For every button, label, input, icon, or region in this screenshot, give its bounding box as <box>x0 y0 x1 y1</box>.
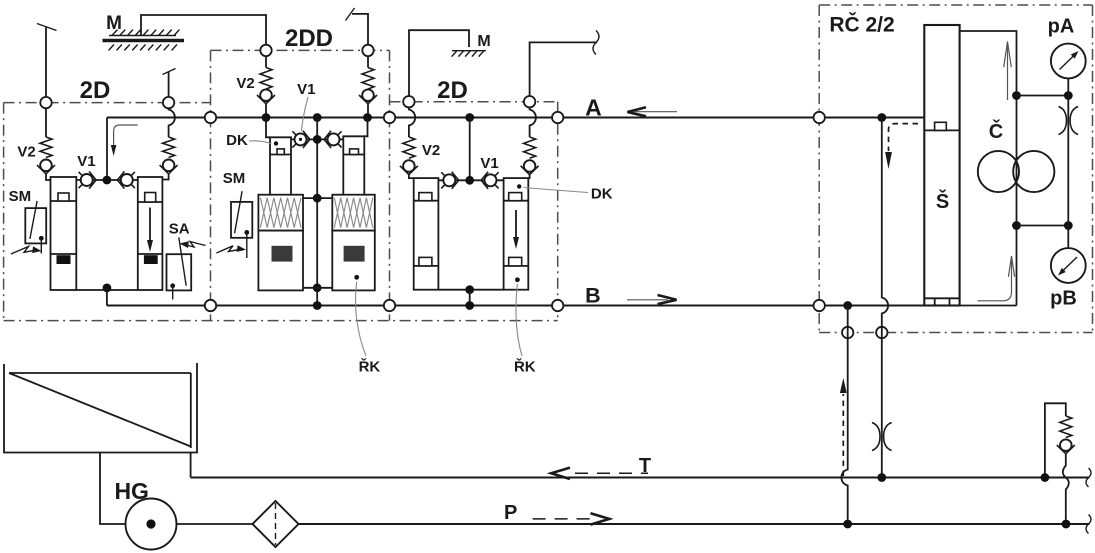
port circle left 2D top-right <box>163 97 174 108</box>
node T at bypass <box>1041 473 1050 482</box>
svg-text:ŘK: ŘK <box>359 358 381 376</box>
node B feed right 2D <box>465 301 474 310</box>
svg-text:V1: V1 <box>77 153 95 170</box>
ground symbol M1 <box>109 35 176 37</box>
node V1 left 2D <box>103 176 112 185</box>
node pump top <box>1012 91 1021 100</box>
check valve V1 left 2DD with pilot dot <box>295 133 307 145</box>
svg-text:Š: Š <box>936 189 949 213</box>
svg-text:pB: pB <box>1050 288 1077 310</box>
svg-text:M: M <box>477 33 490 50</box>
spring V2 left of left 2D <box>45 108 47 137</box>
flow arrow up bottom inside RC <box>978 259 1012 301</box>
wire HG to filter <box>177 523 253 525</box>
port circle right 2D top-right <box>524 96 535 107</box>
svg-text:M: M <box>106 13 122 34</box>
relief spring <box>1060 416 1072 438</box>
valve body left of left 2D <box>51 177 77 290</box>
enclosure RC 2/2 box border <box>819 4 1092 6</box>
enclosure right 2D box border <box>390 101 558 103</box>
node bottom link 2DD <box>313 283 322 292</box>
check valve V2 right right-2D <box>524 160 536 172</box>
port circle 2DD top-left <box>260 45 271 56</box>
port circle RC edge B <box>814 300 825 311</box>
spring V2 left right-2D (hop over A) <box>409 107 415 137</box>
port circle 2DD right edge A <box>384 112 395 123</box>
wire V1 row 2DD <box>291 138 343 140</box>
wire supply right 2D right column with S-break <box>530 42 597 101</box>
port circle RC bottom left <box>842 327 853 338</box>
wire V1 row right 2D <box>438 179 503 181</box>
pipe tank to T line <box>190 453 192 478</box>
check valve V2 left right-2D <box>403 160 415 172</box>
svg-text:2D: 2D <box>80 77 111 104</box>
node bottom right 2D <box>465 285 474 294</box>
spool block S <box>924 25 959 306</box>
node pump bottom <box>1012 221 1021 230</box>
tank reservoir <box>4 363 197 453</box>
svg-text:SM: SM <box>223 170 246 187</box>
line P main <box>299 523 1090 525</box>
node bottom left 2D <box>103 284 112 293</box>
wire supply left 2D right column with break tick <box>168 72 170 103</box>
pump loop right side <box>960 31 1017 306</box>
port circle right 2D edge B <box>552 300 563 311</box>
node A at RC <box>877 113 886 122</box>
svg-text:2D: 2D <box>437 77 468 104</box>
filter diamond <box>253 501 299 547</box>
port circle left 2D top-left <box>40 97 51 108</box>
svg-text:ŘK: ŘK <box>514 358 536 376</box>
relief wire to P with S-jog over T <box>1063 454 1069 524</box>
node A left 2DD <box>262 113 271 122</box>
svg-text:2DD: 2DD <box>285 25 333 52</box>
line T main <box>191 476 1090 478</box>
svg-text:V2: V2 <box>17 144 35 161</box>
port circle 2DD left edge B <box>205 300 216 311</box>
check valve V1 left right-2D <box>443 174 455 186</box>
port circle right 2D edge A <box>552 112 563 123</box>
check valve V1 right (left 2D) <box>121 174 133 186</box>
node B feed 2DD <box>313 301 322 310</box>
solenoid housing right 2DD <box>332 231 375 291</box>
check valve V1 left (left 2D) <box>81 174 93 186</box>
spring V2 right of left 2D (hop over A) <box>169 108 175 137</box>
svg-text:Č: Č <box>989 119 1003 143</box>
spring V2 left 2DD <box>265 56 267 67</box>
hand pump HG <box>126 499 177 550</box>
spring housing left 2DD <box>258 195 303 231</box>
flow arrow on T dashed pointing left <box>575 472 648 474</box>
svg-text:pA: pA <box>1048 16 1075 38</box>
flow arrow on A pointing left <box>634 111 677 113</box>
valve body right of left 2D <box>138 177 163 290</box>
port circle RC bottom right <box>876 327 887 338</box>
svg-text:HG: HG <box>114 478 149 504</box>
line B main horizontal <box>107 304 924 306</box>
ground symbol M2 <box>452 50 486 52</box>
node V1 2DD <box>313 135 322 144</box>
node P at relief <box>1062 520 1071 529</box>
valve body right right-2D <box>504 178 529 290</box>
wire bottom link right 2D <box>438 289 503 291</box>
port circle left 2D right edge B <box>205 300 216 311</box>
actuation lightning SM left 2D <box>11 247 35 255</box>
wire node to B feed right 2D <box>469 290 471 306</box>
node gauge column bottom <box>1064 221 1073 230</box>
pressure gauge pB <box>1051 248 1086 283</box>
wire supply left 2D left column with break tick <box>45 27 47 103</box>
orifice restrictor top right <box>1059 107 1067 135</box>
node T at A-T wire <box>877 473 886 482</box>
port circle left 2D right edge A <box>205 112 216 123</box>
node B at RC <box>843 301 852 310</box>
valve body left right-2D <box>414 178 439 290</box>
wire supply 2DD right column with break tick <box>352 14 368 51</box>
orifice restrictor on A-T line <box>872 423 880 451</box>
actuation lightning SM 2DD <box>216 246 239 253</box>
spring V2 right right-2D (hop over A) <box>530 107 536 137</box>
port circle 2DD top-right <box>362 45 373 56</box>
pressure gauge pA <box>1051 44 1086 79</box>
mechanical anchor M1 link <box>141 15 266 50</box>
check valve V1 right right-2D <box>485 174 497 186</box>
wire A-to-T vertical with hop over B <box>882 118 888 478</box>
check valve V1 right 2DD <box>328 133 340 145</box>
wire gauge column <box>1067 78 1069 248</box>
svg-text:V2: V2 <box>236 75 254 92</box>
svg-text:RČ 2/2: RČ 2/2 <box>829 13 894 37</box>
switch SA left 2D <box>167 254 192 290</box>
gear pump C circles <box>978 151 1019 192</box>
wire A node to V1 node right 2D <box>469 118 471 181</box>
node P at B-P wire <box>843 520 852 529</box>
flow arrow on P dashed pointing right <box>533 518 592 520</box>
spring housing right 2DD <box>332 195 375 231</box>
wire bottom link left 2D <box>76 289 138 291</box>
check valve V2 right of left 2D <box>163 160 175 172</box>
check valve V2 left 2DD <box>260 89 272 101</box>
line A main horizontal <box>107 116 924 118</box>
flow arrow on B pointing right <box>627 299 668 301</box>
wire node to B feed left 2D <box>106 288 108 306</box>
wire pump bottom link <box>1017 225 1069 227</box>
wire B-to-P vertical with hop over T <box>841 306 847 525</box>
spring V2 right 2DD <box>367 56 369 67</box>
svg-text:SM: SM <box>9 188 32 205</box>
port circle right 2D top-left <box>403 96 414 107</box>
solenoid housing left 2DD <box>258 231 303 291</box>
relief check valve bypass bracket <box>1045 403 1066 477</box>
node A right 2DD <box>363 113 372 122</box>
pilot dashed arrow from A node down <box>889 124 919 151</box>
svg-text:DK: DK <box>226 132 248 149</box>
relief check valve ball <box>1060 439 1072 451</box>
wire V1 row left 2D <box>76 179 138 181</box>
actuation lightning SA left 2D <box>185 242 206 248</box>
port circle 2DD right edge B <box>384 300 395 311</box>
svg-text:V1: V1 <box>297 81 315 98</box>
svg-text:P: P <box>504 502 517 524</box>
node V1 right 2D <box>465 176 474 185</box>
port circle RC edge A <box>814 112 825 123</box>
mechanical anchor M2 link <box>409 30 469 102</box>
center vertical wire 2DD <box>316 118 318 306</box>
check valve V2 right 2DD <box>362 89 374 101</box>
enclosure 2DD box border <box>211 49 390 51</box>
pilot corner wire to V1 node left 2D <box>106 118 108 181</box>
check valve V2 left of left 2D <box>40 160 52 172</box>
svg-text:DK: DK <box>591 185 613 202</box>
flow arrow up top inside RC <box>1007 44 1009 100</box>
valve body right 2DD <box>364 118 367 137</box>
svg-text:B: B <box>585 284 601 308</box>
pipe tank to HG pump <box>100 453 126 525</box>
node A right 2D <box>465 113 474 122</box>
node gauge column top <box>1064 91 1073 100</box>
svg-text:SA: SA <box>169 221 190 238</box>
pilot dashed arrow up beside B-P wire <box>842 394 844 476</box>
wire pump top link <box>1017 95 1069 97</box>
pilot flow arrow curved left 2D <box>114 125 138 146</box>
valve DK body left 2DD <box>266 118 270 138</box>
svg-text:V1: V1 <box>480 155 498 172</box>
switch SM 2DD <box>231 202 252 238</box>
svg-text:A: A <box>585 94 602 120</box>
enclosure left 2D box border <box>4 102 211 104</box>
node A center 2DD <box>313 113 322 122</box>
svg-text:V2: V2 <box>422 142 440 159</box>
node spring link 2DD <box>313 194 322 203</box>
switch SM left 2D <box>25 208 46 243</box>
